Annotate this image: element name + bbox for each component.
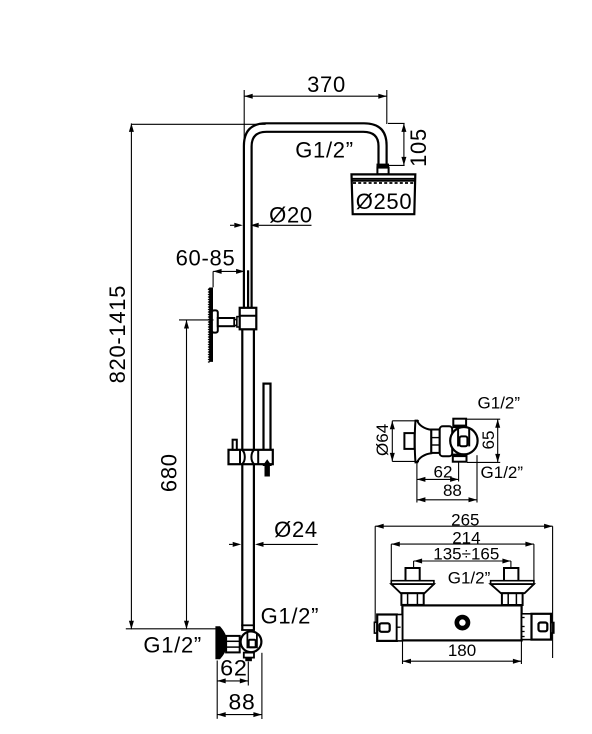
svg-text:370: 370 [307,72,346,97]
hand shower nozzle black [263,459,272,476]
svg-text:62: 62 [220,656,248,681]
bracket flange [212,310,218,332]
dim 60-85 ext [212,271,214,287]
mixer front: right escutcheon plate [491,581,534,584]
dim 65 exts [467,418,501,420]
mixer front: right inlet stub [504,568,518,581]
svg-text:88: 88 [229,690,256,715]
dim 88 bottom line [217,714,262,716]
mixer side view: handle circle [450,427,477,454]
lower tube lower section [241,464,243,631]
mixer front: body bar [402,605,521,640]
svg-text:G1/2”: G1/2” [481,463,524,482]
shower arm inner wall [252,132,379,309]
svg-text:G1/2”: G1/2” [261,604,320,629]
dim 820-1415 ext top [131,123,265,125]
mixer front: right nut [502,593,523,605]
shower arm outer wall [244,123,387,309]
dim D24 arrows and leader [233,542,242,547]
elbow outlet white [244,653,254,658]
svg-text:G1/2”: G1/2” [478,394,521,413]
dim 88 bottom ext right [261,653,263,719]
mixer side view: body [440,426,453,456]
dim 370 ext right [386,90,388,124]
svg-text:105: 105 [406,128,431,167]
mixer front: left handle butt [374,622,377,633]
dim 180 line [403,660,522,662]
dim 62 bottom ext right [247,662,249,686]
mixer front: right handle butt [551,623,554,634]
dim 60-85 line [213,270,245,272]
bracket collar small [234,320,237,326]
svg-text:88: 88 [443,481,462,500]
elbow nut [226,636,240,653]
svg-text:680: 680 [157,453,182,492]
svg-text:820-1415: 820-1415 [105,285,130,384]
shower head nozzle dashed line [353,182,414,184]
dim 370 line [244,95,387,97]
mixer front: left escutcheon plate [391,581,434,584]
dim 135-165 exts [413,561,415,568]
riser inner tube line [247,270,249,308]
svg-text:60-85: 60-85 [176,245,236,270]
svg-text:62: 62 [434,463,453,482]
dim 62 bottom ext left [216,661,218,719]
slider divider left [239,450,241,464]
mixer side view: cartridge slot [457,428,459,447]
mixer front: left escutcheon cone [391,584,434,593]
mixer front: left handle [377,615,397,641]
slider lock tab [233,440,237,450]
shower head top plate line [352,178,415,180]
wall plate hatched [208,288,213,364]
svg-text:180: 180 [448,641,476,660]
mixer side view: bottom fitting [453,455,467,462]
bracket clamp block [240,308,257,330]
head connector black band [377,164,390,168]
side view ext lines [416,464,418,503]
mixer front: left handle inner square [379,623,389,632]
dim D64 line [391,421,393,462]
elbow joint line lower [241,629,255,631]
slider pipe waist left [242,450,245,464]
bracket pin [218,318,235,326]
dim 88 side line [417,499,477,501]
bracket collar tall [237,317,240,327]
dim 180 exts [402,641,404,665]
svg-text:G1/2”: G1/2” [295,138,354,163]
dim 820-1415 line [130,123,132,629]
dim 62 side line [417,478,459,480]
mixer side view: knob square [460,436,468,446]
mixer front: center dial [455,615,471,631]
lower tube upper section [241,329,243,450]
mixer front: left nut [401,593,423,605]
svg-text:Ø64: Ø64 [373,424,392,456]
elbow outlet black [245,658,252,662]
mixer front: right connector with scale [522,614,532,640]
elbow joint line upper [241,624,255,626]
head connector fitting [377,168,388,175]
svg-text:G1/2”: G1/2” [448,569,491,588]
elbow nut facets [226,640,240,642]
shower head black band [352,179,415,181]
svg-text:135÷165: 135÷165 [433,545,499,564]
dim 820-1415 ext bottom [126,628,217,630]
dim D20 arrows and leader [234,223,243,228]
elbow wall flange black [215,626,226,659]
svg-text:Ø250: Ø250 [356,189,413,214]
dim 370 ext left [243,90,245,147]
mixer front: right escutcheon cone [491,584,534,593]
svg-text:G1/2”: G1/2” [143,633,202,658]
elbow set screw [249,640,256,647]
mixer front: right handle inner square [539,623,548,632]
svg-text:265: 265 [451,510,479,529]
dim 214 line [391,543,534,545]
hand shower handle [264,384,271,451]
mixer front: right handle [532,614,552,640]
mixer front: left connector [397,615,403,641]
dim 65 line [497,419,499,462]
mixer side view: nut [431,430,439,453]
dim 680 ext top [179,319,214,321]
dim 105 ext bottom [389,164,405,166]
mixer side view: escutcheon bell [415,421,432,463]
bracket clamp divider [240,315,257,317]
dim 62 bottom line [217,680,248,682]
dim 265 line [375,525,552,527]
dim 680 line [186,320,188,629]
svg-text:Ø20: Ø20 [269,203,313,228]
shower head body [352,174,416,214]
mixer front: left inlet stub [406,568,420,581]
dim 105 ext top [388,122,405,124]
svg-text:Ø24: Ø24 [274,517,318,542]
dim 135-165 line [414,560,511,562]
dim D64 exts [392,420,419,422]
elbow body circle [241,631,262,652]
dim 265 exts [374,526,376,621]
elbow inner channel [247,633,257,648]
mixer side view: wall square [404,433,414,449]
svg-text:65: 65 [479,431,498,450]
slider divider right [257,450,259,464]
mixer side view: top fitting [453,419,466,427]
slider body [229,450,273,464]
dim 105 line [403,123,405,165]
dim 214 exts [390,544,392,580]
slider pipe waist right [251,450,254,464]
mixer front: left connector index tick [397,626,401,628]
